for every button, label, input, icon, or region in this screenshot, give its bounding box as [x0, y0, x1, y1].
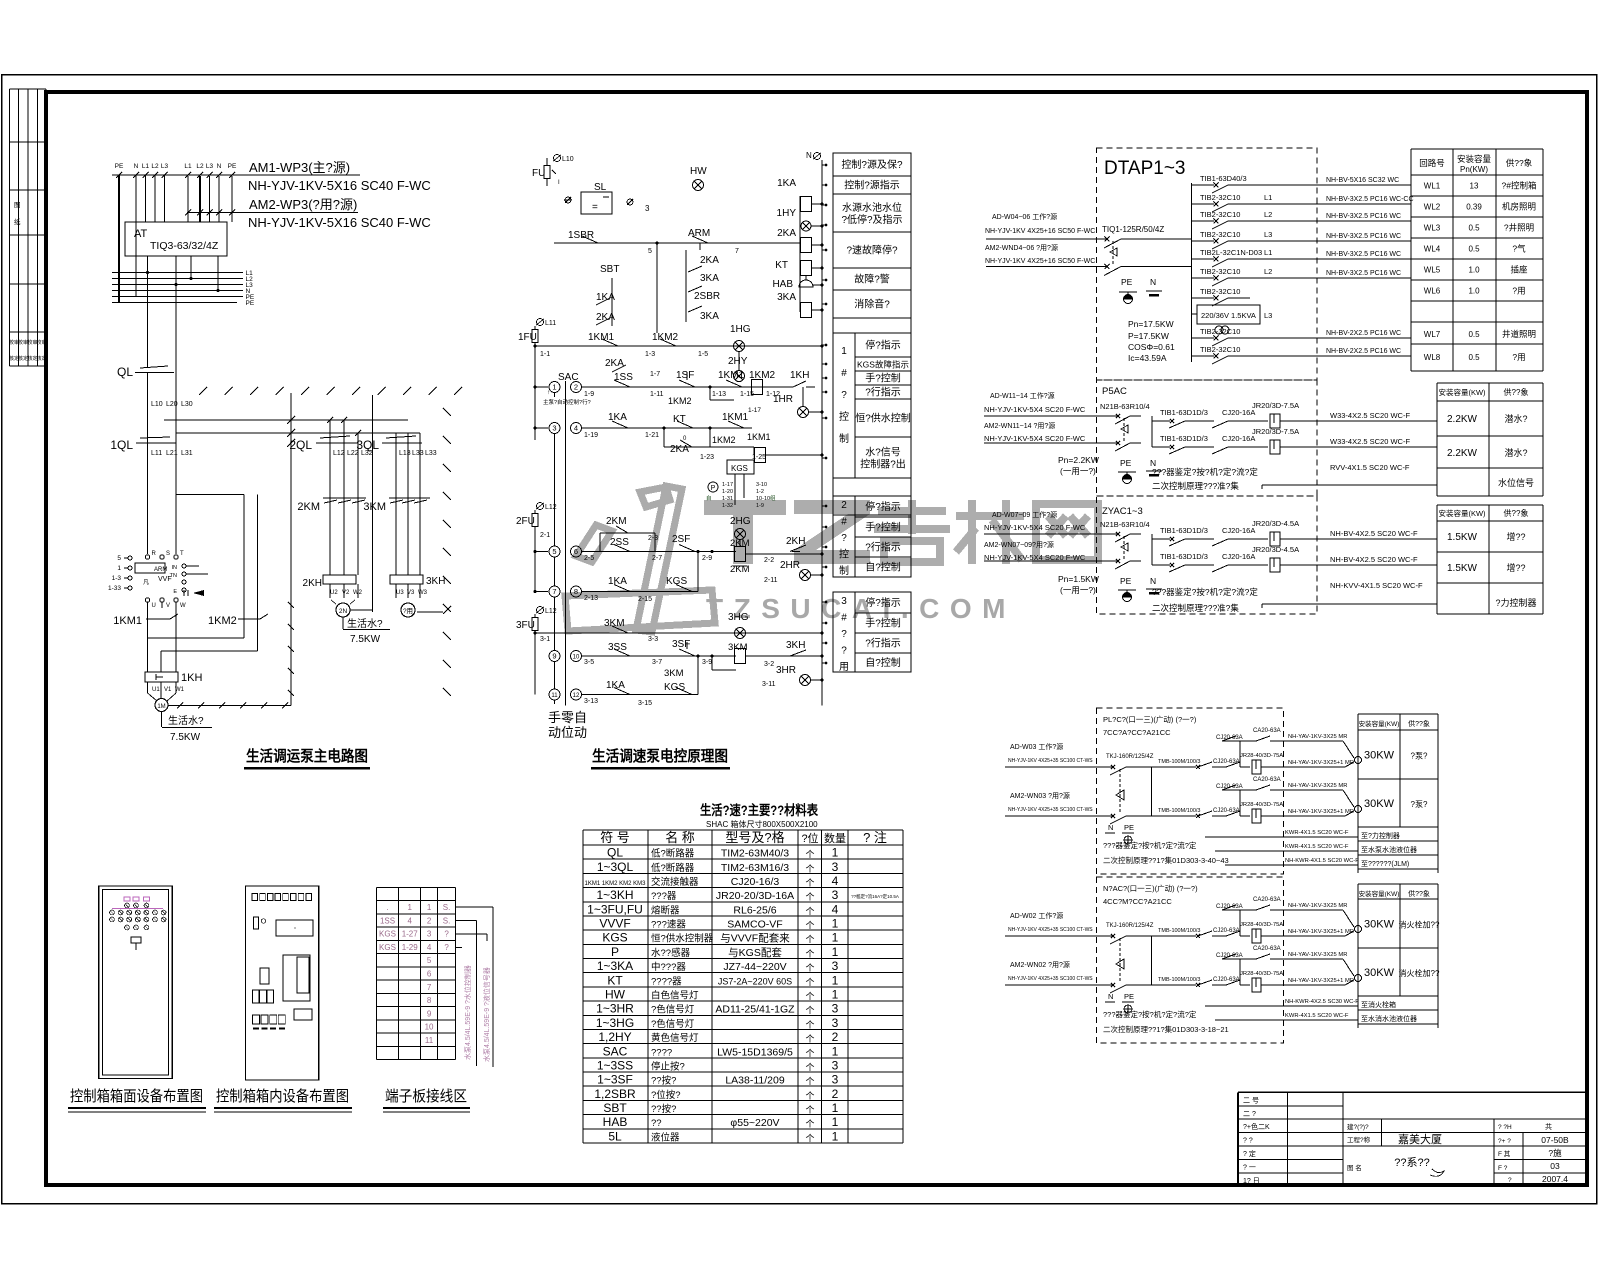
- svg-text:RVV-4X1.5 SC20 WC-F: RVV-4X1.5 SC20 WC-F: [1330, 463, 1410, 472]
- svg-text:型号及?格: 型号及?格: [725, 830, 784, 845]
- svg-text:NH-YJV-1KV 4X25+16 SC50 F-WC: NH-YJV-1KV 4X25+16 SC50 F-WC: [985, 228, 1095, 235]
- svg-text:2KM: 2KM: [606, 516, 627, 527]
- svg-text:PL?C?(口一三)(广动) (?一?): PL?C?(口一三)(广动) (?一?): [1103, 714, 1197, 724]
- svg-text:3KM: 3KM: [363, 501, 386, 513]
- svg-text:U2: U2: [330, 590, 338, 596]
- svg-text:1: 1: [552, 382, 556, 391]
- svg-text:控制箱箱内设备布置图: 控制箱箱内设备布置图: [216, 1088, 349, 1105]
- svg-text:7: 7: [735, 248, 739, 255]
- SAC contacts 5 6: [549, 546, 560, 557]
- watermark glyph 素: [874, 500, 950, 562]
- svg-text:1-32: 1-32: [722, 503, 733, 509]
- svg-text:TMB-100M/100/3: TMB-100M/100/3: [1158, 759, 1201, 765]
- svg-text:2: 2: [832, 1087, 839, 1101]
- svg-text:TIQ3-63/32/4Z: TIQ3-63/32/4Z: [150, 240, 219, 252]
- svg-text:2QL: 2QL: [289, 438, 312, 452]
- svg-text:3: 3: [832, 1016, 839, 1030]
- svg-text:2KH: 2KH: [303, 578, 322, 589]
- svg-text:1: 1: [832, 1101, 839, 1115]
- wire phase bus to 2QL: [164, 419, 408, 421]
- svg-text:1-3: 1-3: [112, 575, 122, 582]
- svg-text:主泵?自动控制?行?: 主泵?自动控制?行?: [543, 398, 591, 406]
- svg-text:SBT: SBT: [600, 264, 619, 275]
- wire rung1 branch down: [656, 243, 658, 326]
- svg-text:3: 3: [832, 860, 839, 874]
- svg-text:KGS: KGS: [731, 464, 748, 473]
- spare branch row2: [1239, 790, 1241, 816]
- svg-text:1SF: 1SF: [676, 370, 694, 381]
- watermark text TZ: [704, 500, 870, 564]
- svg-text:NH-YJV-1KV 4X25+16 SC50 F-WC: NH-YJV-1KV 4X25+16 SC50 F-WC: [985, 258, 1095, 265]
- svg-text:1KA: 1KA: [608, 576, 627, 587]
- svg-text:PE: PE: [246, 300, 255, 307]
- svg-text:Pn=17.5KW: Pn=17.5KW: [1128, 319, 1174, 329]
- svg-text:JR20/3D-7.5A: JR20/3D-7.5A: [1252, 427, 1299, 436]
- svg-text:1: 1: [407, 903, 412, 912]
- svg-text:L33: L33: [412, 450, 424, 457]
- WL table row WL4: [1411, 258, 1543, 260]
- svg-text:WL3: WL3: [1424, 224, 1441, 233]
- svg-text:二 号: 二 号: [1243, 1096, 1259, 1104]
- svg-text:N21B-63R10/4: N21B-63R10/4: [1100, 520, 1150, 529]
- svg-text:1KM2: 1KM2: [208, 615, 237, 627]
- svg-text:建?(?)?: 建?(?)?: [1347, 1122, 1369, 1131]
- svg-text:NH-BV-5X16 SC32 WC: NH-BV-5X16 SC32 WC: [1326, 177, 1399, 184]
- svg-text:1KM1: 1KM1: [113, 615, 142, 627]
- svg-text:NH-BV-4X2.5 SC20 WC-F: NH-BV-4X2.5 SC20 WC-F: [1330, 529, 1418, 538]
- svg-text:S: S: [166, 551, 170, 557]
- svg-text:??按?: ??按?: [651, 1103, 676, 1115]
- svg-text:个: 个: [805, 1062, 814, 1072]
- right control bus N: [821, 160, 823, 706]
- svg-text:?+色二K: ?+色二K: [1243, 1122, 1270, 1131]
- svg-text:潜水?: 潜水?: [1504, 413, 1527, 424]
- svg-text:L2: L2: [151, 163, 159, 170]
- svg-text:1.5KW: 1.5KW: [1447, 532, 1478, 543]
- rung1 wire: [554, 242, 800, 244]
- svg-text:1KM2: 1KM2: [712, 435, 736, 445]
- svg-text:LA38-11/209: LA38-11/209: [725, 1075, 785, 1087]
- svg-text:JR20/3D-4.5A: JR20/3D-4.5A: [1252, 545, 1299, 554]
- svg-text:SBT: SBT: [603, 1101, 627, 1115]
- svg-text:?#控制箱: ?#控制箱: [1502, 181, 1537, 191]
- svg-text:NH-YAV-1KV-3X25 MR: NH-YAV-1KV-3X25 MR: [1288, 783, 1347, 789]
- svg-text:E: E: [173, 589, 177, 595]
- svg-text:? ?: ? ?: [1243, 1138, 1253, 1145]
- svg-text:制: 制: [839, 564, 849, 577]
- svg-text:1: 1: [427, 903, 432, 912]
- svg-text:????: ????: [651, 1047, 672, 1058]
- svg-text:W3: W3: [418, 590, 428, 596]
- material row SBT: [583, 1114, 903, 1116]
- svg-text:Ic=43.59A: Ic=43.59A: [1128, 353, 1167, 363]
- svg-text:TIB2-32C10: TIB2-32C10: [1200, 327, 1240, 336]
- svg-text:φ55~220V: φ55~220V: [730, 1117, 779, 1129]
- watermark glyph 网: [1036, 504, 1098, 560]
- svg-text:1KM1: 1KM1: [588, 332, 615, 343]
- svg-text:端子板接线区: 端子板接线区: [385, 1087, 467, 1105]
- svg-text:?用: ?用: [403, 607, 413, 615]
- WL table row WL7: [1411, 343, 1543, 345]
- svg-text:L11: L11: [545, 320, 556, 327]
- svg-text:个: 个: [805, 1048, 814, 1058]
- node L12 fuse 2FU: [537, 503, 544, 510]
- svg-text:4: 4: [407, 916, 412, 925]
- svg-text:2-15: 2-15: [638, 596, 652, 603]
- rung2 wire: [535, 345, 815, 347]
- svg-text:2007.4: 2007.4: [1542, 1174, 1568, 1184]
- wire merge to 1KH: [148, 637, 245, 639]
- node L10 fuse FU: [554, 155, 561, 162]
- wire AT outputs to bus: [147, 256, 149, 273]
- svg-text:3-1: 3-1: [540, 636, 550, 643]
- svg-text:W: W: [180, 603, 186, 609]
- panel dashed box (AD-W02): [1097, 877, 1284, 1043]
- svg-text:TIB1-63D1D/3: TIB1-63D1D/3: [1160, 408, 1208, 417]
- svg-text:5: 5: [427, 956, 432, 965]
- svg-text:1KM1: 1KM1: [718, 370, 745, 381]
- material row 1~3FU,FU: [583, 915, 903, 917]
- material row 5L: [583, 1142, 903, 1144]
- svg-text:CJ20-63A: CJ20-63A: [1213, 928, 1240, 934]
- svg-text:至?力控制器: 至?力控制器: [1361, 831, 1400, 840]
- svg-text:L3: L3: [1264, 230, 1272, 239]
- svg-text:??: ??: [651, 1118, 662, 1129]
- svg-text:L10: L10: [151, 401, 163, 408]
- svg-text:?井照明: ?井照明: [1504, 223, 1534, 233]
- SAC contacts 11 12: [549, 689, 560, 700]
- svg-text:1~3FU,FU: 1~3FU,FU: [587, 902, 643, 916]
- material row 1KM1 1KM2 KM2 KM3: [583, 887, 903, 889]
- svg-text:?: ?: [841, 533, 847, 544]
- svg-text:黄色信号灯: 黄色信号灯: [651, 1032, 699, 1044]
- svg-text:WL8: WL8: [1424, 353, 1441, 362]
- material row 1~3SS: [583, 1071, 903, 1073]
- svg-text:NH-YAV-1KV-3X25+1 MR: NH-YAV-1KV-3X25+1 MR: [1288, 809, 1354, 815]
- svg-text:1HY: 1HY: [777, 208, 797, 219]
- WL table row WL3: [1411, 237, 1543, 239]
- svg-text:??槛定?流16A?定10.5A: ??槛定?流16A?定10.5A: [851, 893, 899, 900]
- svg-text:?: ?: [841, 629, 847, 640]
- svg-text:N: N: [1108, 992, 1113, 1001]
- svg-text:VVVF: VVVF: [599, 917, 630, 931]
- svg-text:V1: V1: [164, 687, 172, 693]
- svg-text:1-23: 1-23: [700, 454, 714, 461]
- title block left column: [1238, 1105, 1343, 1107]
- motor 3M spare: [395, 584, 397, 598]
- svg-text:熔断器: 熔断器: [651, 904, 680, 916]
- svg-text:L2: L2: [1264, 267, 1272, 276]
- thermal relay 3KH: [390, 575, 423, 584]
- wire PE riser ticks: [288, 602, 294, 608]
- svg-text:1: 1: [832, 917, 839, 931]
- svg-text:N: N: [1150, 277, 1156, 287]
- svg-text:N: N: [134, 163, 139, 170]
- svg-text:回路号: 回路号: [1419, 158, 1445, 168]
- svg-text:3KA: 3KA: [777, 292, 796, 303]
- svg-text:1: 1: [832, 988, 839, 1002]
- wire incomer 1: [986, 238, 1107, 240]
- svg-text:V2: V2: [342, 590, 350, 596]
- svg-text:N: N: [1108, 823, 1113, 832]
- svg-text:1: 1: [832, 846, 839, 860]
- svg-text:TIB1-63D40/3: TIB1-63D40/3: [1200, 174, 1247, 183]
- cabinet front indicators: [110, 897, 166, 930]
- svg-text:KT: KT: [775, 260, 788, 271]
- svg-text:潜水?: 潜水?: [1504, 447, 1527, 458]
- svg-text:S.: S.: [443, 916, 451, 925]
- svg-text:LW5-15D1369/5: LW5-15D1369/5: [717, 1046, 793, 1058]
- material row 1,2SBR: [583, 1099, 903, 1101]
- svg-text:AD-W07~09 工作?源: AD-W07~09 工作?源: [992, 510, 1057, 519]
- svg-text:NH-BV-4X2.5 SC20 WC-F: NH-BV-4X2.5 SC20 WC-F: [1330, 555, 1418, 564]
- svg-text:NH-YJV-1KV-5X4 SC20 F-WC: NH-YJV-1KV-5X4 SC20 F-WC: [984, 405, 1086, 414]
- svg-text:KGS故障指示: KGS故障指示: [857, 360, 909, 370]
- svg-text:KGS: KGS: [602, 931, 627, 945]
- svg-text:3-2: 3-2: [764, 661, 774, 668]
- label 生活水泵 7.5KW (2): [342, 617, 344, 629]
- interlock dashed link: [1112, 241, 1114, 264]
- svg-text:NH-KWR-4X2.5 SC30 WC-F: NH-KWR-4X2.5 SC30 WC-F: [1285, 999, 1359, 1005]
- indicator table section 2# pump: [833, 496, 911, 577]
- svg-text:CJ20-16A: CJ20-16A: [1222, 526, 1255, 535]
- svg-text:自: 自: [706, 494, 712, 502]
- svg-text:L2: L2: [196, 163, 204, 170]
- svg-text:供??象: 供??象: [1504, 508, 1529, 518]
- svg-text:1KM1: 1KM1: [722, 412, 749, 423]
- watermark logo: [565, 486, 715, 632]
- terminal board wires: [456, 906, 493, 908]
- svg-text:TIB1-63D1D/3: TIB1-63D1D/3: [1160, 552, 1208, 561]
- svg-text:AD11-25/41-1GZ: AD11-25/41-1GZ: [715, 1004, 795, 1016]
- svg-text:L13: L13: [399, 450, 411, 457]
- svg-text:自?控制: 自?控制: [865, 656, 901, 669]
- svg-text:3: 3: [645, 204, 650, 213]
- wire contact chain left: [611, 278, 613, 326]
- svg-text:控制?源及保?: 控制?源及保?: [841, 158, 903, 171]
- svg-text:1? 日: 1? 日: [1243, 1177, 1260, 1185]
- material row 1~3SF: [583, 1085, 903, 1087]
- svg-text:CA20-63A: CA20-63A: [1253, 728, 1281, 734]
- svg-text:?施: ?施: [1548, 1148, 1562, 1158]
- spare branch row1: [1239, 910, 1241, 936]
- WL circuit table: [1410, 149, 1412, 371]
- svg-text:3QL: 3QL: [356, 438, 379, 452]
- svg-text:增??: 增??: [1506, 562, 1525, 573]
- svg-text:TIM2-63M16/3: TIM2-63M16/3: [721, 862, 789, 874]
- SAC contacts 1 2: [549, 382, 560, 393]
- svg-text:5L: 5L: [608, 1129, 622, 1143]
- svg-text:PE: PE: [1124, 992, 1134, 1001]
- svg-text:2SBR: 2SBR: [694, 291, 720, 302]
- P5AC load table: [1436, 383, 1438, 496]
- bus lines L1 L2 L3 N PE below AT: [112, 272, 243, 274]
- svg-text:CJ20-63A: CJ20-63A: [1213, 759, 1240, 765]
- svg-text:2N: 2N: [339, 608, 348, 615]
- svg-text:图 名: 图 名: [1347, 1163, 1362, 1172]
- svg-text:NH-YAV-1KV-3X25+1 MR: NH-YAV-1KV-3X25+1 MR: [1288, 978, 1354, 984]
- svg-text:KGS: KGS: [379, 930, 396, 939]
- svg-text:AT: AT: [134, 228, 148, 240]
- svg-text:安装容量(KW): 安装容量(KW): [1359, 719, 1400, 728]
- svg-text:5: 5: [552, 547, 556, 556]
- svg-text:生活水?: 生活水?: [347, 617, 383, 630]
- svg-text:1-9: 1-9: [584, 391, 594, 398]
- svg-text:? ?H: ? ?H: [1498, 1124, 1512, 1131]
- controller KGS box: [727, 460, 754, 474]
- svg-text:NH-YJV-1KV-5X4 SC20 F-WC: NH-YJV-1KV-5X4 SC20 F-WC: [984, 434, 1086, 443]
- svg-text:?色信号灯: ?色信号灯: [651, 1004, 695, 1016]
- svg-text:水泵4.5/4L.59E-9 ?液位信号器: 水泵4.5/4L.59E-9 ?液位信号器: [482, 967, 491, 1062]
- svg-text:安装容量: 安装容量: [1457, 154, 1492, 164]
- svg-text:7.5KW: 7.5KW: [170, 732, 201, 743]
- svg-text:1: 1: [832, 1129, 839, 1143]
- svg-text:中???器: 中???器: [651, 961, 686, 973]
- svg-text:L1: L1: [142, 163, 150, 170]
- wire SAC handle column: [554, 433, 556, 546]
- svg-text:2HG: 2HG: [730, 516, 751, 527]
- svg-text:L3: L3: [206, 163, 214, 170]
- svg-text:AD-W11~14 工作?源: AD-W11~14 工作?源: [990, 391, 1055, 400]
- svg-text:(一用一?): (一用一?): [1060, 585, 1096, 595]
- svg-text:4: 4: [574, 423, 578, 432]
- svg-text:3HR: 3HR: [776, 665, 796, 676]
- svg-text:07-50B: 07-50B: [1541, 1135, 1569, 1145]
- svg-text:TMB-100M/100/3: TMB-100M/100/3: [1158, 977, 1201, 983]
- svg-text:WL7: WL7: [1424, 330, 1441, 339]
- svg-text:1~3KA: 1~3KA: [597, 959, 633, 973]
- svg-text:ARM: ARM: [688, 228, 710, 239]
- svg-text:2-2: 2-2: [764, 557, 774, 564]
- svg-text:校审: 校审: [36, 339, 46, 346]
- svg-text:NH-BV-3X2.5 PC16 WC: NH-BV-3X2.5 PC16 WC: [1326, 233, 1401, 240]
- svg-text:NH-YJV-1KV 4X25+35 SC100 CT-WS: NH-YJV-1KV 4X25+35 SC100 CT-WS: [1008, 807, 1093, 813]
- svg-text:个: 个: [805, 878, 814, 888]
- svg-text:?泵?: ?泵?: [1411, 800, 1428, 809]
- material row P: [583, 958, 903, 960]
- svg-text:30KW: 30KW: [1364, 798, 1395, 810]
- svg-text:恒?供水控制: 恒?供水控制: [855, 412, 911, 425]
- svg-text:N: N: [217, 163, 222, 170]
- thermal relay 1KH: [145, 672, 178, 682]
- svg-text:NH-YAV-1KV-3X25+1 MR: NH-YAV-1KV-3X25+1 MR: [1288, 929, 1354, 935]
- svg-text:3: 3: [841, 596, 847, 607]
- svg-text:?: ?: [841, 646, 847, 657]
- svg-text:TN: TN: [170, 573, 177, 579]
- svg-text:?气: ?气: [1512, 244, 1526, 254]
- wire phase bus to 3QL: [176, 432, 420, 434]
- svg-text:白色信号灯: 白色信号灯: [651, 990, 699, 1002]
- svg-text:P5AC: P5AC: [1102, 386, 1127, 397]
- svg-text:2KA: 2KA: [700, 255, 719, 266]
- svg-text:水源水池水位: 水源水池水位: [842, 201, 902, 214]
- svg-text:手?控制: 手?控制: [865, 372, 901, 385]
- svg-text:水位信号: 水位信号: [1498, 477, 1534, 488]
- svg-text:1,2HY: 1,2HY: [598, 1030, 631, 1044]
- coil 3KM: [735, 649, 746, 664]
- svg-text:?色信号灯: ?色信号灯: [651, 1018, 695, 1030]
- svg-text:2: 2: [832, 1030, 839, 1044]
- svg-text:1.5KW: 1.5KW: [1447, 563, 1478, 574]
- svg-text:12: 12: [573, 693, 580, 699]
- wire AM2 incoming bus: [187, 212, 358, 214]
- svg-text:TMB-100M/100/3: TMB-100M/100/3: [1158, 808, 1201, 814]
- svg-text:NH-BV-3X2.5 PC16 WC-CC: NH-BV-3X2.5 PC16 WC-CC: [1326, 196, 1414, 203]
- svg-text:KWR-4X1.5 SC20 WC-F: KWR-4X1.5 SC20 WC-F: [1285, 844, 1349, 850]
- svg-text:液位器: 液位器: [651, 1131, 680, 1143]
- svg-text:?用: ?用: [1512, 286, 1525, 296]
- terminal board table: [375, 887, 377, 1059]
- svg-text:消火栓加??: 消火栓加??: [1399, 920, 1440, 930]
- svg-text:恒?供水控制器: 恒?供水控制器: [651, 933, 714, 945]
- svg-text:W33-4X2.5 SC20 WC-F: W33-4X2.5 SC20 WC-F: [1330, 437, 1410, 446]
- svg-text:增??: 增??: [1506, 531, 1525, 542]
- svg-text:个: 个: [805, 1020, 814, 1030]
- WL table row WL6: [1411, 300, 1543, 302]
- svg-text:TIQ1-125R/50/4Z: TIQ1-125R/50/4Z: [1102, 225, 1164, 234]
- svg-text:?速故障停?: ?速故障停?: [846, 244, 898, 257]
- svg-text:???器鉴定?按?机?定?流?定: ???器鉴定?按?机?定?流?定: [1152, 587, 1258, 597]
- svg-text:3-3: 3-3: [648, 636, 658, 643]
- wire 1QL to VVF: [147, 443, 149, 554]
- svg-text:7.5KW: 7.5KW: [350, 634, 381, 645]
- rung6 wire: [582, 551, 736, 553]
- svg-text:4: 4: [832, 874, 839, 888]
- material row QL: [583, 858, 903, 860]
- svg-text:CA20-63A: CA20-63A: [1253, 777, 1281, 783]
- svg-text:AD-W04~06 工作?源: AD-W04~06 工作?源: [992, 212, 1057, 221]
- svg-text:机房照明: 机房照明: [1502, 202, 1536, 212]
- svg-text:控: 控: [839, 410, 849, 423]
- material row KT: [583, 986, 903, 988]
- SAC contacts 7 8: [549, 586, 560, 597]
- svg-text:1-27: 1-27: [402, 930, 419, 939]
- svg-text:U1: U1: [152, 687, 160, 693]
- svg-text:CJ20-16A: CJ20-16A: [1222, 434, 1255, 443]
- interlock triangle: [1119, 938, 1121, 983]
- svg-text:个: 个: [805, 1105, 814, 1115]
- svg-text:PE: PE: [228, 163, 237, 170]
- wire N riser 2: [372, 395, 374, 612]
- svg-text:L30: L30: [181, 401, 193, 408]
- svg-text:1HG: 1HG: [730, 324, 751, 335]
- svg-text:控制器?出: 控制器?出: [860, 458, 906, 471]
- DTAP vertical bus: [1191, 183, 1193, 362]
- svg-text:1KM1 1KM2 KM2 KM3: 1KM1 1KM2 KM2 KM3: [584, 881, 646, 887]
- wire motor PE link: [168, 705, 291, 707]
- svg-text:1KH: 1KH: [790, 370, 809, 381]
- svg-text:3KA: 3KA: [700, 311, 719, 322]
- svg-text:N?AC?(口一三)(广动) (?一?): N?AC?(口一三)(广动) (?一?): [1103, 883, 1198, 893]
- svg-text:个: 个: [805, 1133, 814, 1143]
- level relay SL: [564, 199, 572, 201]
- svg-text:??系??: ??系??: [1394, 1156, 1429, 1169]
- svg-text:AM2-WND4~06 ?用?源: AM2-WND4~06 ?用?源: [985, 243, 1058, 252]
- svg-text:CJ20-63A: CJ20-63A: [1213, 808, 1240, 814]
- svg-text:WL5: WL5: [1424, 266, 1441, 275]
- svg-text:NH-BV-3X2.5 PC16 WC: NH-BV-3X2.5 PC16 WC: [1326, 251, 1401, 258]
- svg-text:3: 3: [832, 959, 839, 973]
- svg-text:3-13: 3-13: [584, 698, 598, 705]
- svg-text:HAB: HAB: [603, 1115, 628, 1129]
- svg-text:个: 个: [805, 977, 814, 987]
- svg-text:1~3QL: 1~3QL: [597, 860, 634, 874]
- svg-text:30KW: 30KW: [1364, 750, 1395, 762]
- svg-text:1-7: 1-7: [650, 371, 660, 378]
- rung4 wire: [608, 427, 752, 429]
- svg-text:1KA: 1KA: [596, 292, 615, 303]
- svg-text:2-13: 2-13: [584, 595, 598, 602]
